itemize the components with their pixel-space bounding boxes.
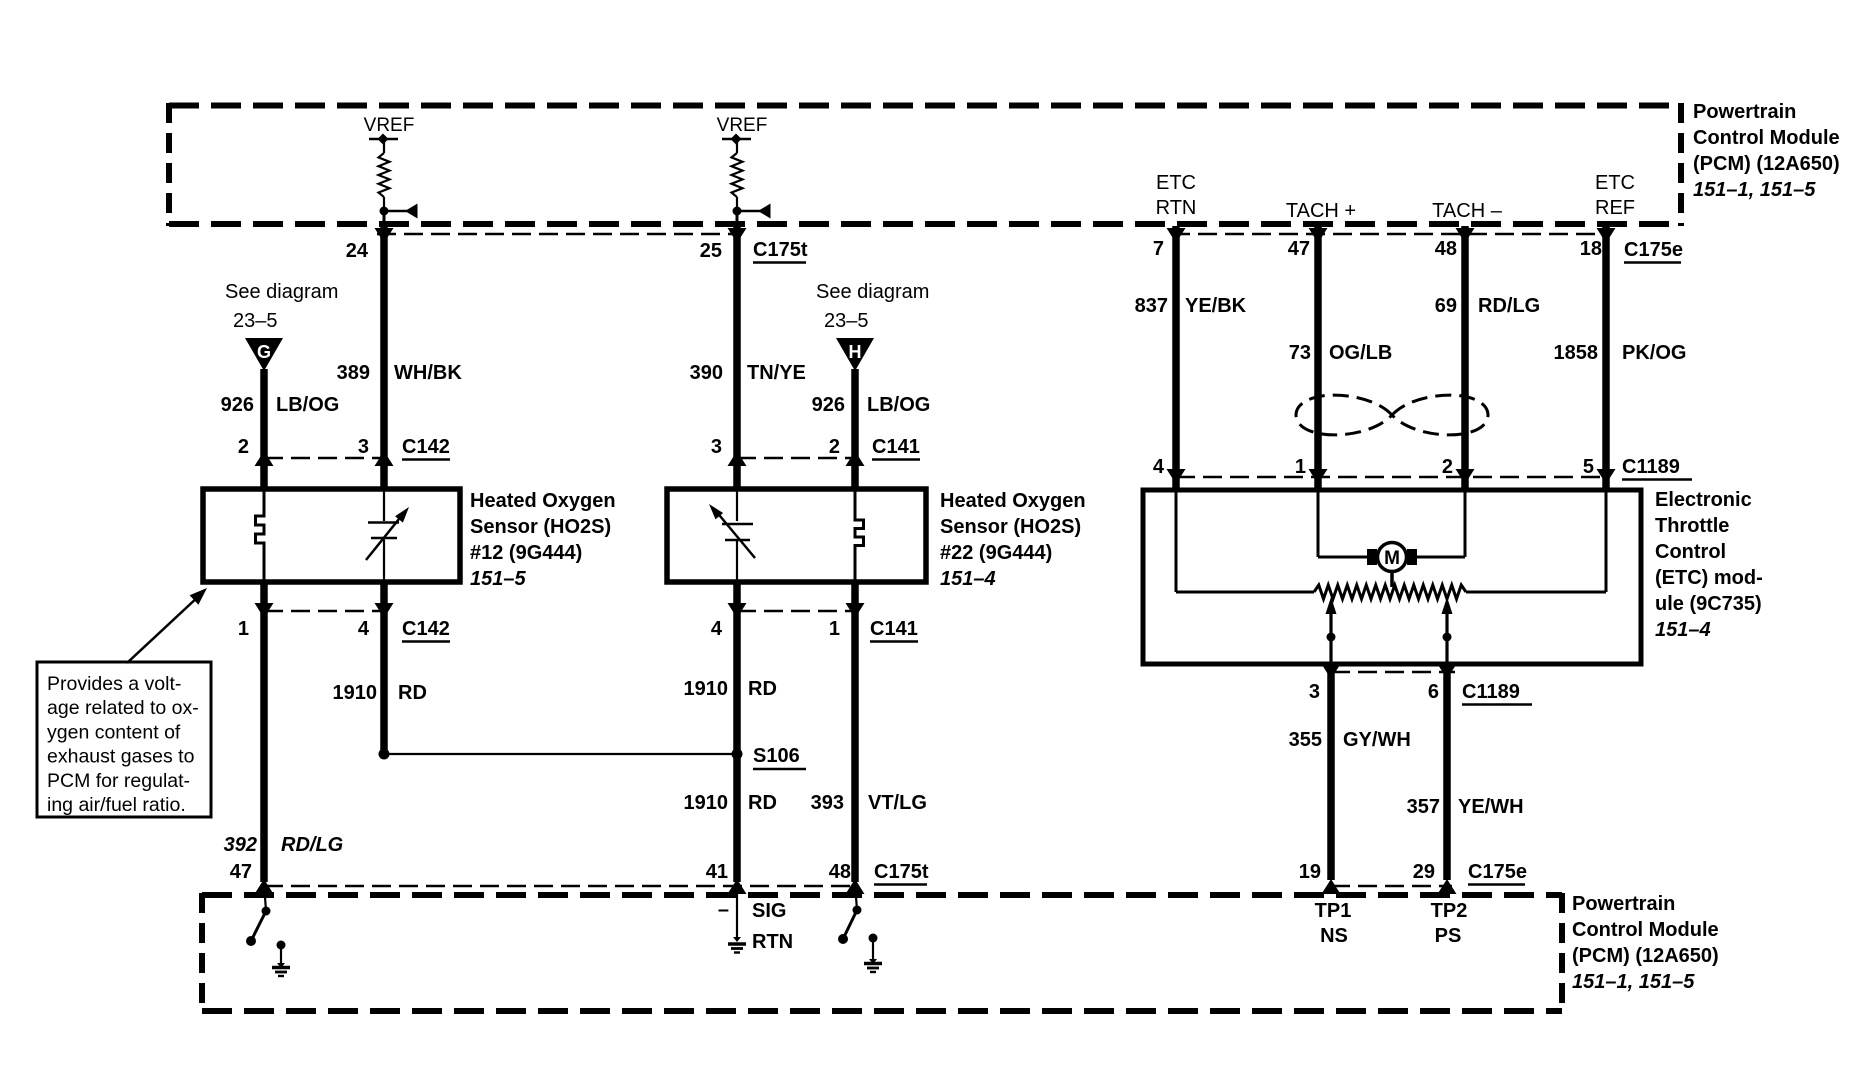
svg-text:Sensor (HO2S): Sensor (HO2S) bbox=[470, 516, 611, 538]
svg-text:3: 3 bbox=[358, 436, 369, 458]
svg-text:NS: NS bbox=[1320, 925, 1348, 947]
svg-text:REF: REF bbox=[1595, 197, 1635, 219]
svg-text:VREF: VREF bbox=[717, 115, 768, 136]
svg-text:PCM for regulat-: PCM for regulat- bbox=[47, 770, 190, 792]
svg-text:RTN: RTN bbox=[1156, 197, 1197, 219]
svg-text:47: 47 bbox=[230, 861, 252, 883]
svg-text:Control: Control bbox=[1655, 541, 1726, 563]
svg-text:Control Module: Control Module bbox=[1693, 127, 1840, 149]
svg-text:C141: C141 bbox=[872, 436, 920, 458]
svg-text:151–1, 151–5: 151–1, 151–5 bbox=[1572, 971, 1695, 993]
svg-text:RD: RD bbox=[748, 678, 777, 700]
svg-text:WH/BK: WH/BK bbox=[394, 362, 462, 384]
svg-text:926: 926 bbox=[812, 394, 845, 416]
svg-text:151–4: 151–4 bbox=[1655, 619, 1711, 641]
svg-text:2: 2 bbox=[238, 436, 249, 458]
svg-text:4: 4 bbox=[358, 618, 370, 640]
svg-text:29: 29 bbox=[1413, 861, 1435, 883]
svg-text:C1189: C1189 bbox=[1622, 456, 1680, 478]
svg-text:1910: 1910 bbox=[684, 792, 729, 814]
svg-text:1910: 1910 bbox=[684, 678, 729, 700]
svg-text:3: 3 bbox=[711, 436, 722, 458]
svg-text:RD: RD bbox=[398, 682, 427, 704]
svg-text:LB/OG: LB/OG bbox=[867, 394, 930, 416]
svg-text:PS: PS bbox=[1435, 925, 1462, 947]
svg-text:Heated Oxygen: Heated Oxygen bbox=[940, 490, 1086, 512]
svg-text:S106: S106 bbox=[753, 745, 800, 767]
svg-text:Throttle: Throttle bbox=[1655, 515, 1729, 537]
svg-text:1: 1 bbox=[238, 618, 249, 640]
svg-text:LB/OG: LB/OG bbox=[276, 394, 339, 416]
svg-text:C142: C142 bbox=[402, 618, 450, 640]
svg-text:C175t: C175t bbox=[874, 861, 929, 883]
svg-text:C142: C142 bbox=[402, 436, 450, 458]
svg-text:See diagram: See diagram bbox=[225, 281, 338, 303]
svg-text:926: 926 bbox=[221, 394, 254, 416]
svg-text:RTN: RTN bbox=[752, 931, 793, 953]
svg-text:RD: RD bbox=[748, 792, 777, 814]
svg-text:390: 390 bbox=[690, 362, 723, 384]
svg-text:ule (9C735): ule (9C735) bbox=[1655, 593, 1762, 615]
svg-text:RD/LG: RD/LG bbox=[281, 834, 343, 856]
svg-text:exhaust gases to: exhaust gases to bbox=[47, 746, 195, 768]
svg-text:RD/LG: RD/LG bbox=[1478, 295, 1540, 317]
svg-text:VT/LG: VT/LG bbox=[868, 792, 927, 814]
svg-text:1858: 1858 bbox=[1554, 342, 1599, 364]
svg-text:1: 1 bbox=[1295, 456, 1306, 478]
svg-text:2: 2 bbox=[829, 436, 840, 458]
svg-text:Provides a volt-: Provides a volt- bbox=[47, 673, 181, 695]
svg-text:2: 2 bbox=[1442, 456, 1453, 478]
svg-text:41: 41 bbox=[706, 861, 728, 883]
svg-text:4: 4 bbox=[711, 618, 723, 640]
svg-text:Electronic: Electronic bbox=[1655, 489, 1752, 511]
svg-text:151–4: 151–4 bbox=[940, 568, 996, 590]
svg-text:SIG: SIG bbox=[752, 900, 786, 922]
svg-text:#22 (9G444): #22 (9G444) bbox=[940, 542, 1052, 564]
svg-text:25: 25 bbox=[700, 240, 722, 262]
svg-text:48: 48 bbox=[829, 861, 851, 883]
svg-text:G: G bbox=[257, 342, 271, 362]
svg-text:19: 19 bbox=[1299, 861, 1321, 883]
svg-text:ETC: ETC bbox=[1595, 172, 1635, 194]
svg-text:ETC: ETC bbox=[1156, 172, 1196, 194]
svg-text:TN/YE: TN/YE bbox=[747, 362, 806, 384]
svg-text:47: 47 bbox=[1288, 238, 1310, 260]
svg-text:Control Module: Control Module bbox=[1572, 919, 1719, 941]
svg-text:#12 (9G444): #12 (9G444) bbox=[470, 542, 582, 564]
svg-text:5: 5 bbox=[1583, 456, 1594, 478]
svg-text:355: 355 bbox=[1289, 729, 1322, 751]
svg-text:6: 6 bbox=[1428, 681, 1439, 703]
svg-text:PK/OG: PK/OG bbox=[1622, 342, 1686, 364]
svg-text:(ETC) mod-: (ETC) mod- bbox=[1655, 567, 1763, 589]
svg-text:Powertrain: Powertrain bbox=[1572, 893, 1675, 915]
svg-text:C175e: C175e bbox=[1468, 861, 1527, 883]
svg-text:837: 837 bbox=[1135, 295, 1168, 317]
svg-text:–: – bbox=[718, 899, 729, 921]
svg-text:1910: 1910 bbox=[333, 682, 378, 704]
svg-text:TP2: TP2 bbox=[1431, 900, 1468, 922]
svg-text:Heated Oxygen: Heated Oxygen bbox=[470, 490, 616, 512]
svg-text:OG/LB: OG/LB bbox=[1329, 342, 1392, 364]
svg-text:18: 18 bbox=[1580, 238, 1602, 260]
svg-text:3: 3 bbox=[1309, 681, 1320, 703]
svg-text:YE/BK: YE/BK bbox=[1185, 295, 1247, 317]
svg-text:VREF: VREF bbox=[364, 115, 415, 136]
svg-text:48: 48 bbox=[1435, 238, 1457, 260]
svg-text:(PCM) (12A650): (PCM) (12A650) bbox=[1693, 153, 1840, 175]
svg-text:YE/WH: YE/WH bbox=[1458, 796, 1524, 818]
svg-text:GY/WH: GY/WH bbox=[1343, 729, 1411, 751]
svg-text:151–5: 151–5 bbox=[470, 568, 526, 590]
svg-text:7: 7 bbox=[1153, 238, 1164, 260]
svg-text:23–5: 23–5 bbox=[824, 310, 869, 332]
svg-text:C175e: C175e bbox=[1624, 239, 1683, 261]
svg-text:69: 69 bbox=[1435, 295, 1457, 317]
svg-text:C141: C141 bbox=[870, 618, 918, 640]
svg-text:389: 389 bbox=[337, 362, 370, 384]
svg-text:Powertrain: Powertrain bbox=[1693, 101, 1796, 123]
svg-text:See diagram: See diagram bbox=[816, 281, 929, 303]
svg-text:73: 73 bbox=[1289, 342, 1311, 364]
svg-text:4: 4 bbox=[1153, 456, 1165, 478]
svg-text:151–1, 151–5: 151–1, 151–5 bbox=[1693, 179, 1816, 201]
svg-text:23–5: 23–5 bbox=[233, 310, 278, 332]
svg-text:C175t: C175t bbox=[753, 239, 808, 261]
svg-text:(PCM) (12A650): (PCM) (12A650) bbox=[1572, 945, 1719, 967]
svg-text:TACH –: TACH – bbox=[1432, 200, 1503, 222]
svg-text:357: 357 bbox=[1407, 796, 1440, 818]
svg-text:393: 393 bbox=[811, 792, 844, 814]
svg-text:TACH +: TACH + bbox=[1286, 200, 1356, 222]
svg-text:M: M bbox=[1384, 548, 1400, 569]
svg-text:H: H bbox=[849, 342, 862, 362]
svg-text:TP1: TP1 bbox=[1315, 900, 1352, 922]
svg-text:age related to ox-: age related to ox- bbox=[47, 697, 199, 719]
svg-text:C1189: C1189 bbox=[1462, 681, 1520, 703]
svg-text:1: 1 bbox=[829, 618, 840, 640]
svg-text:24: 24 bbox=[346, 240, 369, 262]
svg-text:ing air/fuel ratio.: ing air/fuel ratio. bbox=[47, 794, 186, 816]
svg-text:Sensor (HO2S): Sensor (HO2S) bbox=[940, 516, 1081, 538]
svg-text:392: 392 bbox=[224, 834, 257, 856]
svg-text:ygen content of: ygen content of bbox=[47, 721, 181, 743]
